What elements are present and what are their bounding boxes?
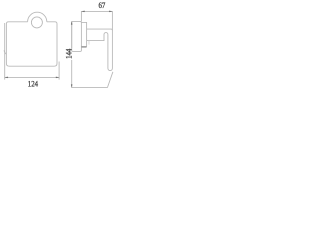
svg-text:124: 124	[28, 79, 38, 89]
svg-text:144: 144	[64, 49, 74, 59]
svg-text:67: 67	[98, 0, 105, 10]
